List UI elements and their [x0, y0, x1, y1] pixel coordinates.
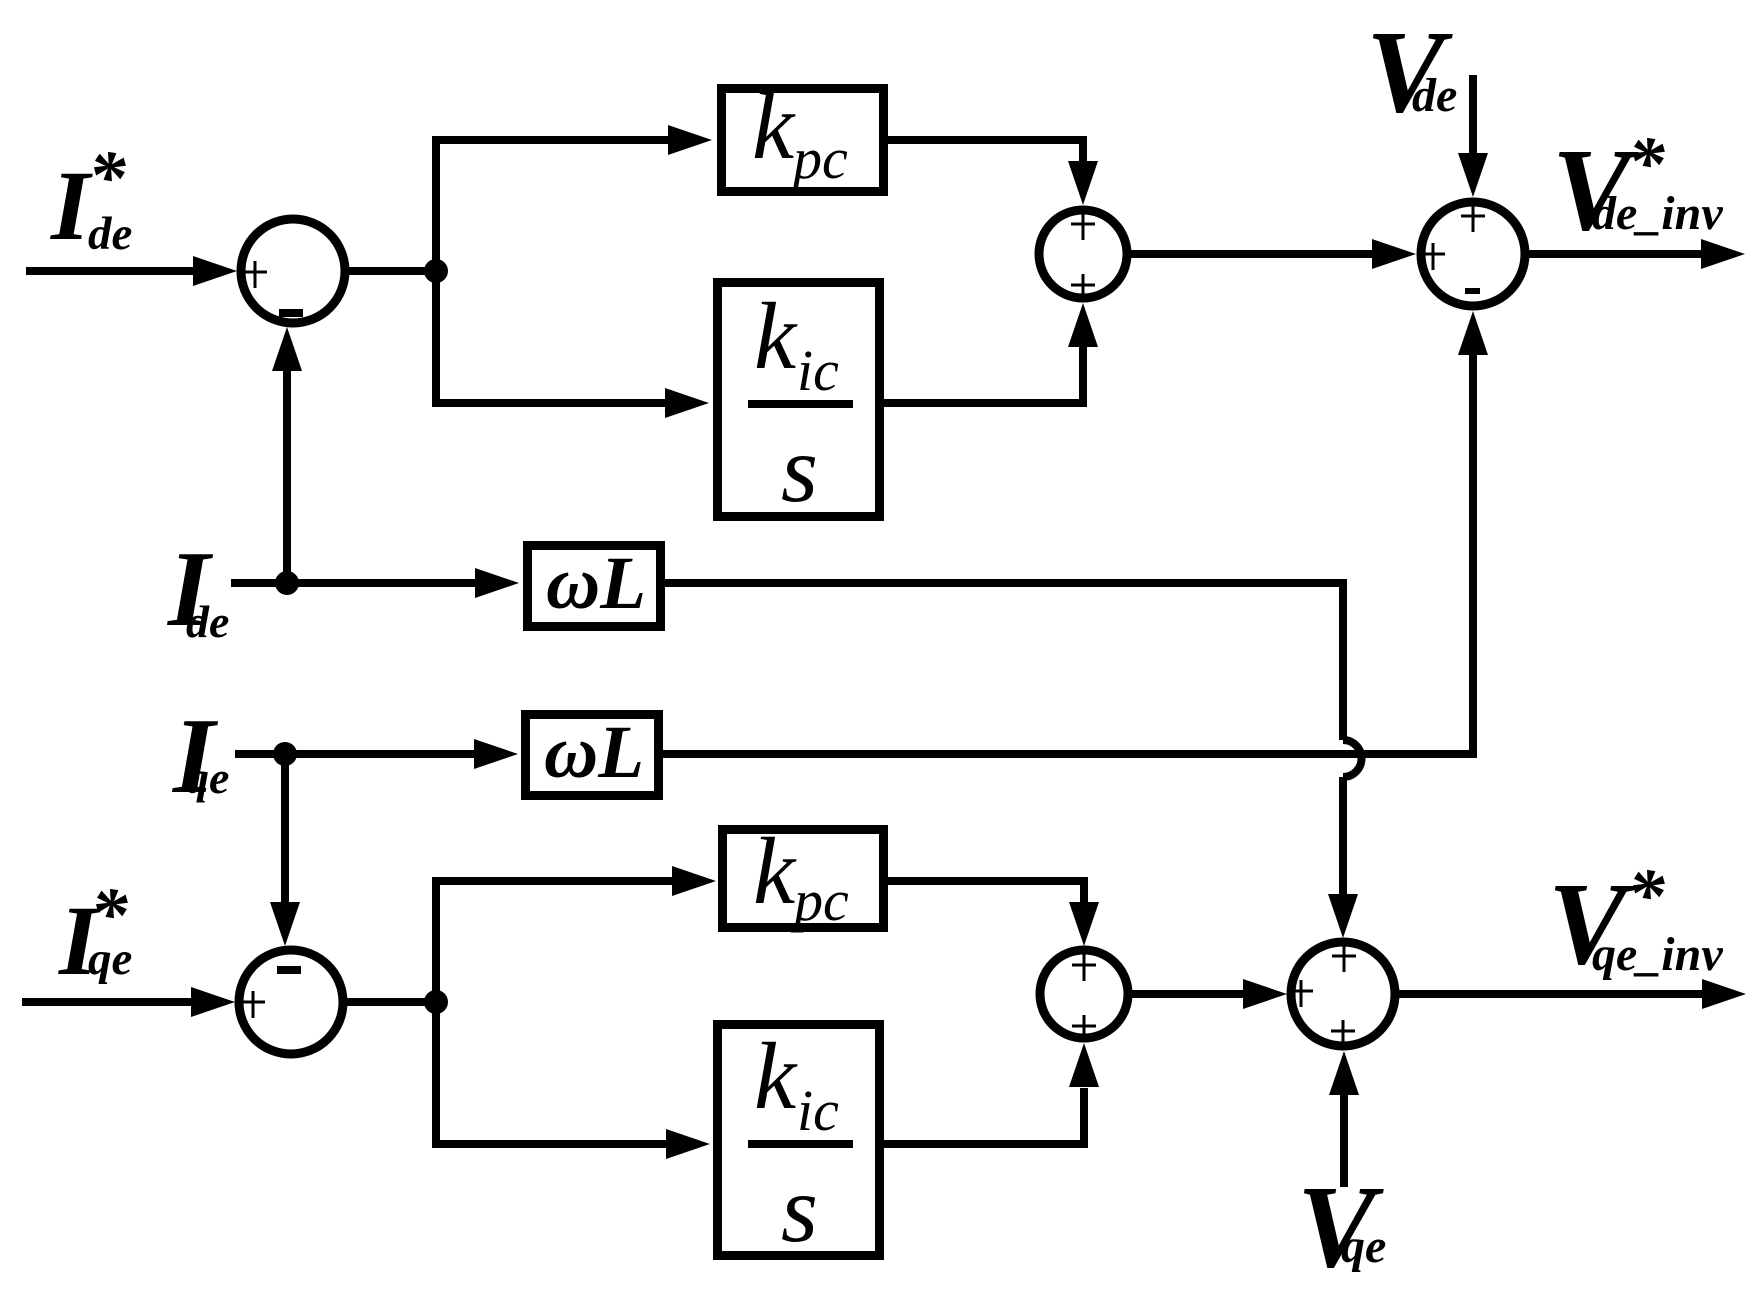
- svg-text:s: s: [781, 416, 818, 522]
- svg-text:ωL: ωL: [544, 711, 644, 794]
- svg-text:*: *: [90, 873, 128, 956]
- svg-text:ic: ic: [797, 1078, 839, 1143]
- svg-text:ic: ic: [797, 338, 839, 403]
- svg-text:de: de: [1412, 69, 1457, 122]
- svg-text:k: k: [754, 283, 798, 389]
- svg-text:s: s: [781, 1156, 818, 1262]
- svg-text:k: k: [754, 1023, 798, 1129]
- svg-text:pc: pc: [789, 126, 848, 191]
- svg-text:*: *: [1627, 122, 1665, 205]
- svg-text:qe: qe: [1341, 1220, 1386, 1273]
- svg-text:k: k: [753, 818, 797, 924]
- svg-text:k: k: [752, 73, 796, 179]
- svg-text:de: de: [186, 596, 229, 647]
- svg-text:I: I: [50, 150, 93, 261]
- svg-text:*: *: [88, 136, 126, 219]
- svg-text:ωL: ωL: [546, 542, 646, 625]
- svg-text:qe: qe: [186, 752, 229, 803]
- svg-text:pc: pc: [790, 868, 849, 933]
- svg-text:*: *: [1627, 854, 1665, 937]
